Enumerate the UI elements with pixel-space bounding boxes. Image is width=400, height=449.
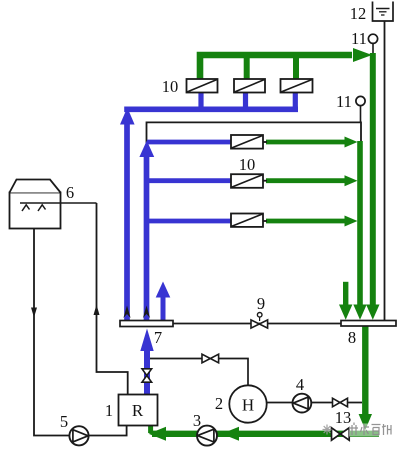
valve 9 on bypass [251, 320, 268, 328]
svg-text:4: 4 [296, 375, 304, 394]
middle row1 green branch with arrow [266, 140, 346, 145]
wire pump5 to chiller R bottom [89, 426, 127, 436]
svg-text:3: 3 [193, 411, 201, 430]
green arrow into header8 (riser 2) [366, 305, 379, 320]
top coil 10 unit 2 [234, 79, 265, 93]
header7 manifold [120, 321, 173, 327]
green bottom return line [152, 431, 379, 437]
blue riser chiller R to header7 [144, 350, 150, 395]
valve on H top pipe [202, 354, 219, 363]
blue arrow top of riser A [120, 108, 135, 125]
svg-text:H: H [242, 396, 254, 415]
wire bypass header7 to header8 [172, 323, 342, 325]
svg-text:1: 1 [105, 401, 113, 420]
blue arrow top of riser B [139, 141, 154, 158]
svg-text:13: 13 [335, 408, 352, 427]
sensor 11 upper circle [368, 34, 377, 43]
black flow chevron on riser B [143, 306, 150, 319]
green arrow into header8 (riser 1) [353, 305, 366, 320]
blue arrow into header7 [140, 329, 153, 352]
green arrow left mid (before pump3) [222, 427, 240, 441]
svg-text:9: 9 [257, 294, 265, 313]
blue riser A header7 to top blue line [124, 124, 130, 321]
blue drop top coil 1 [198, 92, 203, 108]
valve on blue riser [142, 369, 152, 382]
svg-text:8: 8 [348, 328, 356, 347]
green top collect line [200, 55, 352, 79]
tank 6 water line [20, 202, 97, 204]
middle coil row2 blue branch [145, 178, 231, 183]
tank 6 surface mark 2 [38, 205, 46, 211]
wire H heater to pump4 to green riser [266, 402, 362, 404]
valve on pump4 line [333, 398, 348, 407]
svg-text:2: 2 [215, 394, 223, 413]
watermark text [350, 423, 391, 436]
middle row2 green branch with arrow [266, 178, 346, 183]
svg-text:12: 12 [350, 4, 367, 23]
short blue arrow C above header7 [161, 295, 166, 321]
pump 4 [293, 394, 312, 413]
expansion tank 12 [373, 2, 394, 22]
middle coil 10 unit row2 [231, 174, 263, 188]
blue drop top coil 2 [243, 92, 248, 108]
tank 6 lid [10, 180, 61, 193]
flow arrow down on left pipe [31, 308, 37, 318]
chiller R box 1 [119, 395, 158, 426]
middle coil 10 unit row1 [231, 135, 263, 149]
svg-text:5: 5 [60, 412, 68, 431]
green stub arrow into header8 [343, 282, 348, 306]
green return down from header8 [362, 326, 368, 415]
middle coil row1 blue branch [147, 140, 231, 145]
blue riser B header7 to coil row1 [144, 157, 150, 321]
flow arrow up on right pipe [94, 305, 100, 316]
wire H heater top pipe to blue riser with valve [150, 359, 248, 387]
middle coil row3 blue branch [145, 219, 231, 224]
black stubs between middle coils and green branches [262, 142, 267, 221]
sensor 11 lower circle [356, 96, 365, 105]
green arrow down to bottom line [359, 414, 372, 430]
top coil 10 unit 3 [281, 79, 313, 93]
green arrow left at chiller R [149, 427, 167, 441]
top coil 10 unit 1 [187, 79, 218, 93]
watermark backdrop [349, 424, 391, 437]
svg-text:7: 7 [154, 328, 162, 347]
top blue distribution line [124, 106, 298, 112]
tank 6 surface mark 1 [22, 205, 30, 211]
valve 9 hand circle [259, 317, 261, 322]
wire tank6 water line to down pipe to chiller R top [97, 203, 128, 395]
svg-text:11: 11 [351, 29, 367, 48]
svg-text:10: 10 [162, 77, 179, 96]
green riser middle (collects rows) [357, 141, 363, 306]
wire black loop top (middle coils) [147, 122, 362, 146]
black flow chevron on riser A [123, 306, 130, 319]
valve 13 on green bottom line [332, 428, 350, 440]
wire tank12 down to header8 [384, 21, 386, 321]
middle coil 10 unit row3 [231, 214, 263, 227]
heater H circle 2 [229, 385, 266, 422]
svg-text:11: 11 [336, 92, 352, 111]
sensor 11 lower stem [360, 106, 362, 123]
pump 5 [69, 426, 88, 445]
header8 manifold [341, 321, 396, 327]
blue drop top coil 3 [293, 92, 298, 108]
middle row3 green branch with arrow [266, 219, 346, 224]
svg-text:6: 6 [66, 183, 74, 202]
green riser right from top line to header8 [370, 53, 376, 306]
svg-text:R: R [132, 401, 144, 420]
pump 3 [197, 426, 217, 446]
watermark logo [323, 425, 332, 435]
wire tank6 bottom to pump5 (left down pipe) [34, 229, 69, 436]
sensor 11 upper stem [372, 43, 374, 53]
svg-text:10: 10 [239, 155, 256, 174]
green drop top coil 2 [244, 52, 250, 79]
green arrow right on top line [353, 48, 372, 62]
tank 6 body [10, 193, 61, 229]
green drop top coil 3 [293, 52, 299, 79]
green stub into chiller R bottom [148, 426, 153, 434]
